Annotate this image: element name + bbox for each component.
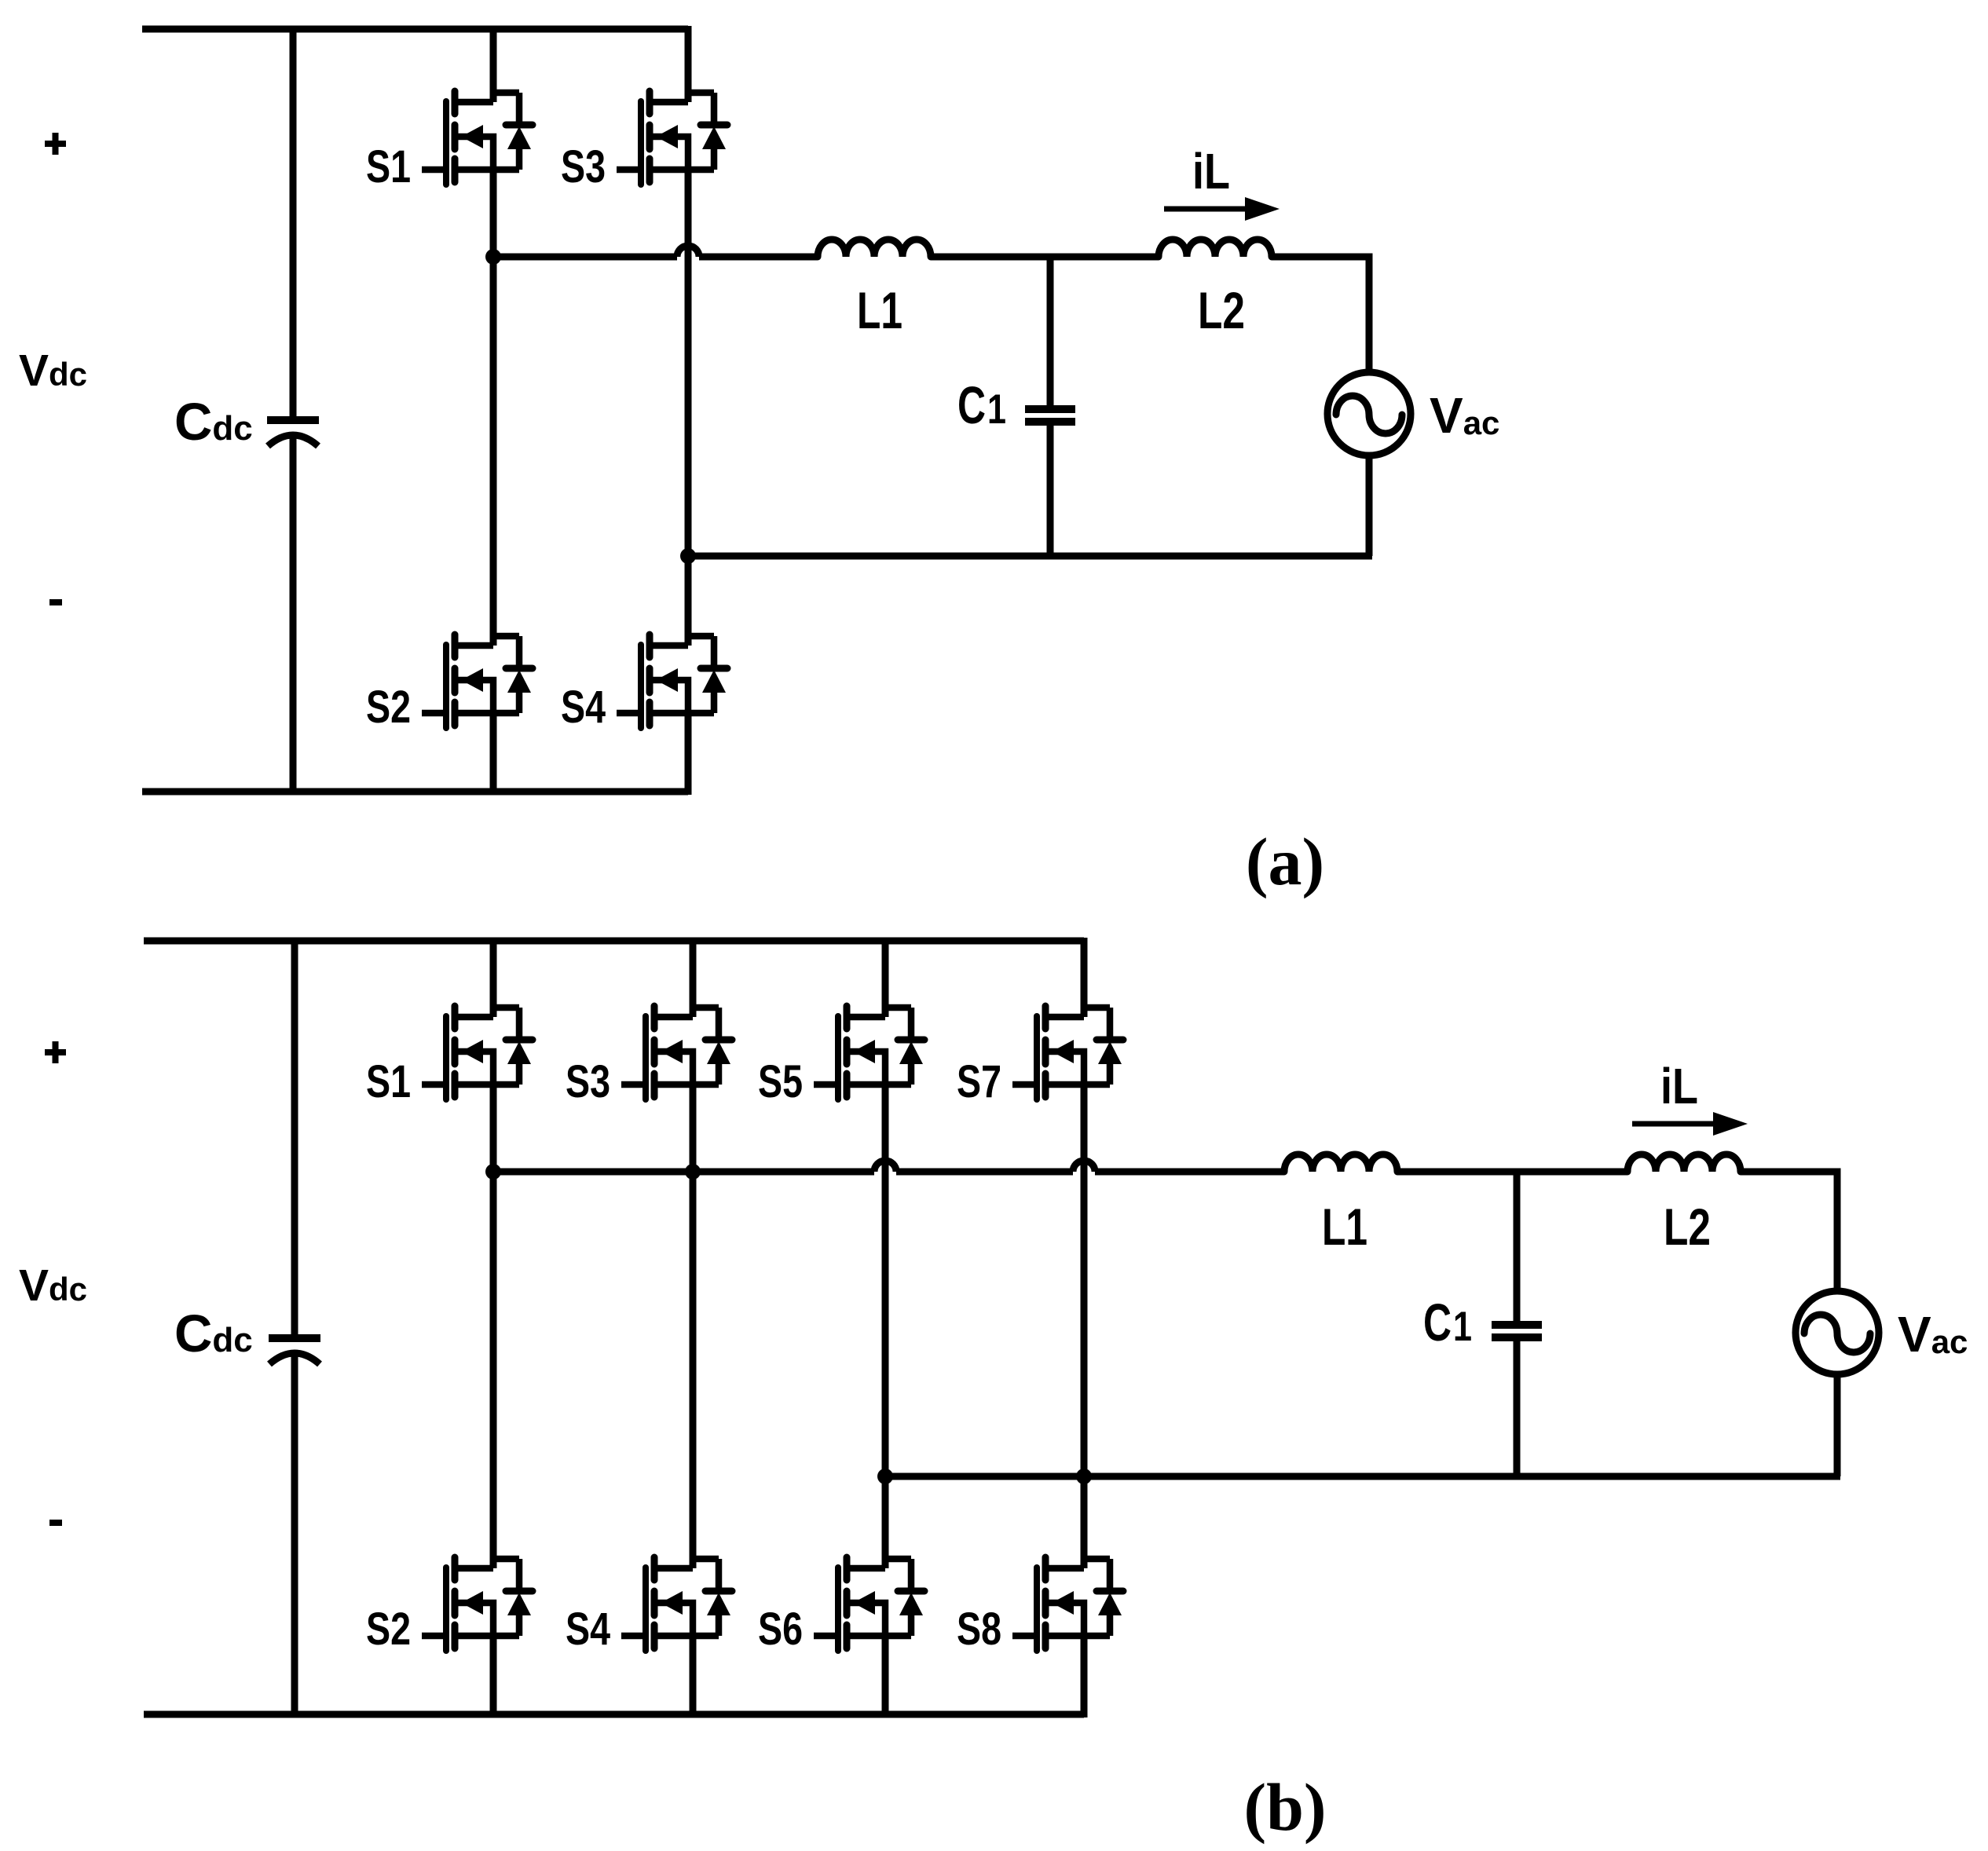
- wire: leg1 lower (b): [490, 1636, 497, 1717]
- svg-text:S8: S8: [957, 1604, 1001, 1655]
- transistor S3: [617, 91, 727, 185]
- svg-text:(a): (a): [1246, 824, 1324, 899]
- wire: Cdc branch upper (b): [291, 938, 298, 1334]
- wire: upper output node line with hops (b): [493, 1169, 874, 1176]
- wire: leg4 lower (b): [1081, 1636, 1088, 1717]
- source Vac (b): [1796, 1291, 1879, 1374]
- svg-text:iL: iL: [1192, 143, 1230, 199]
- label + (b): [45, 1041, 66, 1063]
- wire: DC- bottom rail (a): [142, 788, 688, 796]
- inductor L2 (b): [1627, 1154, 1741, 1172]
- svg-text:C: C: [1423, 1293, 1452, 1352]
- transistor S3 (b): [621, 1006, 732, 1099]
- transistor S5 (b): [814, 1006, 924, 1099]
- wire: DC+ top rail (a): [142, 26, 688, 33]
- svg-text:S7: S7: [957, 1056, 1001, 1107]
- svg-text:S4: S4: [561, 682, 606, 733]
- transistor S1: [422, 91, 533, 185]
- capacitor Cdc (b): [269, 1338, 320, 1364]
- label - (a): [49, 599, 62, 605]
- wire: Cdc branch lower (b): [291, 1355, 298, 1717]
- wire: output node1 to L1 with hop over leg2 (a): [493, 254, 677, 261]
- inductor L1 (a): [818, 240, 931, 257]
- node dot leg2 midpoint (b): [685, 1164, 701, 1180]
- svg-text:S2: S2: [366, 1604, 411, 1655]
- capacitor C1 (b): [1492, 1325, 1542, 1337]
- node dot leg3 lower midpoint (b): [877, 1469, 893, 1484]
- svg-text:iL: iL: [1660, 1058, 1698, 1114]
- wire: C1 branch lower (a): [1047, 426, 1054, 556]
- svg-text:L2: L2: [1198, 281, 1245, 339]
- capacitor C1 (a): [1025, 409, 1075, 422]
- wire: leg3 mid (b): [882, 1085, 889, 1568]
- svg-text:L1: L1: [857, 281, 902, 339]
- wire: lower output return line (b): [885, 1473, 1840, 1480]
- wire: leg3 drain segment (b): [882, 938, 889, 1017]
- inductor L2 (a): [1159, 240, 1272, 257]
- source Vac (a): [1327, 372, 1411, 455]
- wire: DC- bottom rail (b): [144, 1711, 1084, 1718]
- wire: leg4 drain segment (b): [1081, 938, 1088, 1017]
- wire: bottom return (a): [688, 553, 1372, 560]
- svg-text:S3: S3: [566, 1056, 610, 1107]
- wire: C1 branch upper (b): [1514, 1172, 1521, 1321]
- wire: leg2 S4-source to rail (a): [685, 713, 692, 795]
- wire: leg4 mid (b): [1081, 1085, 1088, 1568]
- transistor S7 (b): [1012, 1006, 1123, 1099]
- svg-text:S1: S1: [366, 1056, 411, 1107]
- label - (b): [49, 1520, 62, 1526]
- inductor L1 (b): [1284, 1154, 1397, 1172]
- wire: L1 to L2 (b): [1397, 1169, 1627, 1176]
- wire: Vac bottom to return (a): [1366, 455, 1373, 556]
- svg-text:C: C: [957, 376, 986, 435]
- node dot leg1 midpoint (a): [485, 249, 501, 265]
- wire: DC+ top rail (b): [144, 938, 1084, 945]
- wire: leg1 S1-source to node (a): [490, 170, 497, 646]
- svg-text:S5: S5: [758, 1056, 803, 1107]
- svg-text:L1: L1: [1322, 1198, 1367, 1256]
- wire: Cdc branch lower (a): [290, 437, 297, 795]
- label + (a): [45, 133, 66, 155]
- wire: leg3 lower (b): [882, 1636, 889, 1717]
- wire: L1 to L2 (a): [931, 254, 1159, 261]
- svg-text:S2: S2: [366, 682, 411, 733]
- svg-text:1: 1: [1453, 1304, 1472, 1350]
- transistor S1 (b): [422, 1006, 533, 1099]
- node dot leg1 midpoint (b): [485, 1164, 501, 1180]
- svg-text:S1: S1: [366, 141, 411, 192]
- wire: leg2 mid (b): [690, 1085, 697, 1568]
- svg-text:(b): (b): [1243, 1769, 1326, 1845]
- wire: L2 to Vac corner (b): [1741, 1172, 1837, 1291]
- transistor S4: [617, 635, 727, 728]
- node dot leg4 lower midpoint (b): [1076, 1469, 1092, 1484]
- transistor S4 (b): [621, 1557, 732, 1651]
- wire: C1 branch lower (b): [1514, 1341, 1521, 1476]
- arrow iL (a): [1164, 197, 1280, 221]
- wire: Cdc branch upper (a): [290, 26, 297, 416]
- node dot leg2 midpoint (a): [680, 548, 696, 564]
- wire: Vac bottom to return (b): [1834, 1374, 1841, 1476]
- svg-text:1: 1: [987, 386, 1006, 433]
- transistor S8 (b): [1012, 1557, 1123, 1651]
- wire: leg2 S3-source to S4 (a): [685, 170, 692, 646]
- wire: leg1 mid (b): [490, 1085, 497, 1568]
- svg-text:S4: S4: [566, 1604, 610, 1655]
- wire: leg2 lower (b): [690, 1636, 697, 1717]
- wire: C1 branch upper (a): [1047, 257, 1054, 405]
- transistor S6 (b): [814, 1557, 924, 1651]
- wire: leg2 drain segment (b): [690, 938, 697, 1017]
- wire: leg1 drain segment (a): [490, 26, 497, 102]
- svg-text:S3: S3: [561, 141, 606, 192]
- wire: L2 to Vac corner (a): [1272, 257, 1369, 372]
- svg-text:S6: S6: [758, 1604, 803, 1655]
- transistor S2 (b): [422, 1557, 533, 1651]
- arrow iL (b): [1632, 1112, 1748, 1136]
- wire: leg1 S2-source to rail (a): [490, 713, 497, 795]
- svg-text:L2: L2: [1664, 1198, 1711, 1256]
- transistor S2: [422, 635, 533, 728]
- wire: leg2 drain segment (a): [685, 26, 692, 102]
- capacitor Cdc (a): [267, 420, 319, 446]
- wire: leg1 drain segment (b): [490, 938, 497, 1017]
